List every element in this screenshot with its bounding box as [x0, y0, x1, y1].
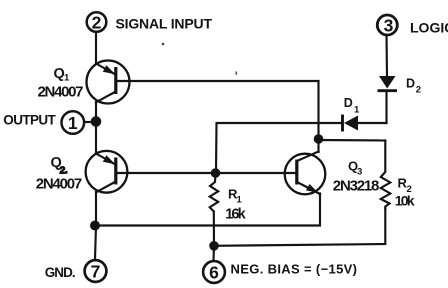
node output junction — [91, 116, 102, 127]
label D1 — [344, 96, 360, 116]
node base junction (R1 top) — [211, 168, 221, 178]
svg-text:GND.: GND. — [45, 265, 76, 280]
node neg-bias junction — [209, 241, 219, 251]
wire neg-bias node to terminal 6 — [212, 246, 215, 260]
label Q2 — [51, 155, 68, 177]
svg-text:16k: 16k — [225, 206, 246, 222]
svg-text:10k: 10k — [395, 193, 415, 209]
svg-text:1: 1 — [64, 73, 70, 84]
node B junction — [314, 134, 324, 144]
wire D1 cathode to base line — [216, 123, 342, 173]
transistor Q1 — [87, 61, 130, 104]
terminal 7 (GND pin) — [85, 260, 107, 282]
svg-text:3: 3 — [357, 167, 362, 178]
terminal 6 (NEG BIAS pin) — [203, 261, 225, 283]
wire output node to Q2 emitter — [95, 122, 97, 155]
wire D2 anode to terminal 3 — [385, 37, 388, 77]
wire terminal 2 to Q1 emitter — [95, 33, 97, 64]
diode D2 — [378, 76, 398, 91]
svg-text:6: 6 — [209, 263, 219, 283]
wire base line Q2 to Q3 — [117, 172, 296, 174]
svg-text:2N3218: 2N3218 — [333, 178, 380, 195]
label Q3 — [348, 159, 362, 178]
diode D1 — [343, 115, 387, 132]
svg-text:2N4007: 2N4007 — [36, 175, 82, 192]
wire Q2 collector to ground node — [95, 192, 97, 226]
resistor R2 — [381, 141, 391, 209]
label R1 — [228, 187, 243, 206]
svg-text:OUTPUT: OUTPUT — [3, 113, 56, 128]
svg-text:D: D — [344, 96, 353, 110]
speck — [236, 72, 238, 75]
svg-text:1: 1 — [354, 105, 360, 116]
wire node B to R2 top — [319, 139, 386, 142]
wire Q1 base to node B corner — [117, 81, 319, 139]
wire R2 bottom to neg-bias node — [214, 209, 385, 246]
resistor R1 — [210, 173, 219, 212]
node ground junction — [90, 221, 100, 231]
svg-text:D: D — [406, 77, 415, 91]
svg-text:2: 2 — [416, 85, 421, 96]
svg-text:2N4007: 2N4007 — [38, 83, 84, 100]
transistor Q2 — [86, 151, 128, 193]
transistor Q3 — [285, 152, 326, 195]
label D2 — [406, 77, 421, 96]
terminal 3 (LOGIC pin) — [377, 15, 397, 35]
wire D1 anode to D2 cathode — [385, 91, 387, 123]
svg-text:7: 7 — [91, 262, 101, 282]
svg-text:NEG. BIAS = (−15V): NEG. BIAS = (−15V) — [231, 262, 358, 277]
wire R1 bottom to neg-bias node — [213, 212, 215, 246]
speck — [162, 43, 165, 46]
label Q1 — [54, 66, 71, 84]
svg-text:2: 2 — [92, 12, 102, 32]
wire terminal 1 to output node — [85, 121, 97, 123]
wire Q3 collector to node B — [317, 139, 319, 152]
svg-text:1: 1 — [68, 113, 78, 133]
terminal 1 (OUTPUT pin) — [62, 111, 85, 134]
wire ground node to terminal 7 — [95, 226, 96, 260]
svg-text:1: 1 — [237, 195, 243, 206]
svg-text:3: 3 — [384, 15, 394, 35]
wire Q1 collector to output node — [95, 102, 97, 122]
wire ground bus to Q3 emitter — [96, 194, 320, 226]
svg-text:LOGIC INPUT: LOGIC INPUT — [410, 19, 448, 35]
terminal 2 (SIGNAL INPUT pin) — [87, 12, 107, 32]
label R2 — [398, 176, 412, 196]
svg-text:SIGNAL INPUT: SIGNAL INPUT — [116, 15, 213, 31]
